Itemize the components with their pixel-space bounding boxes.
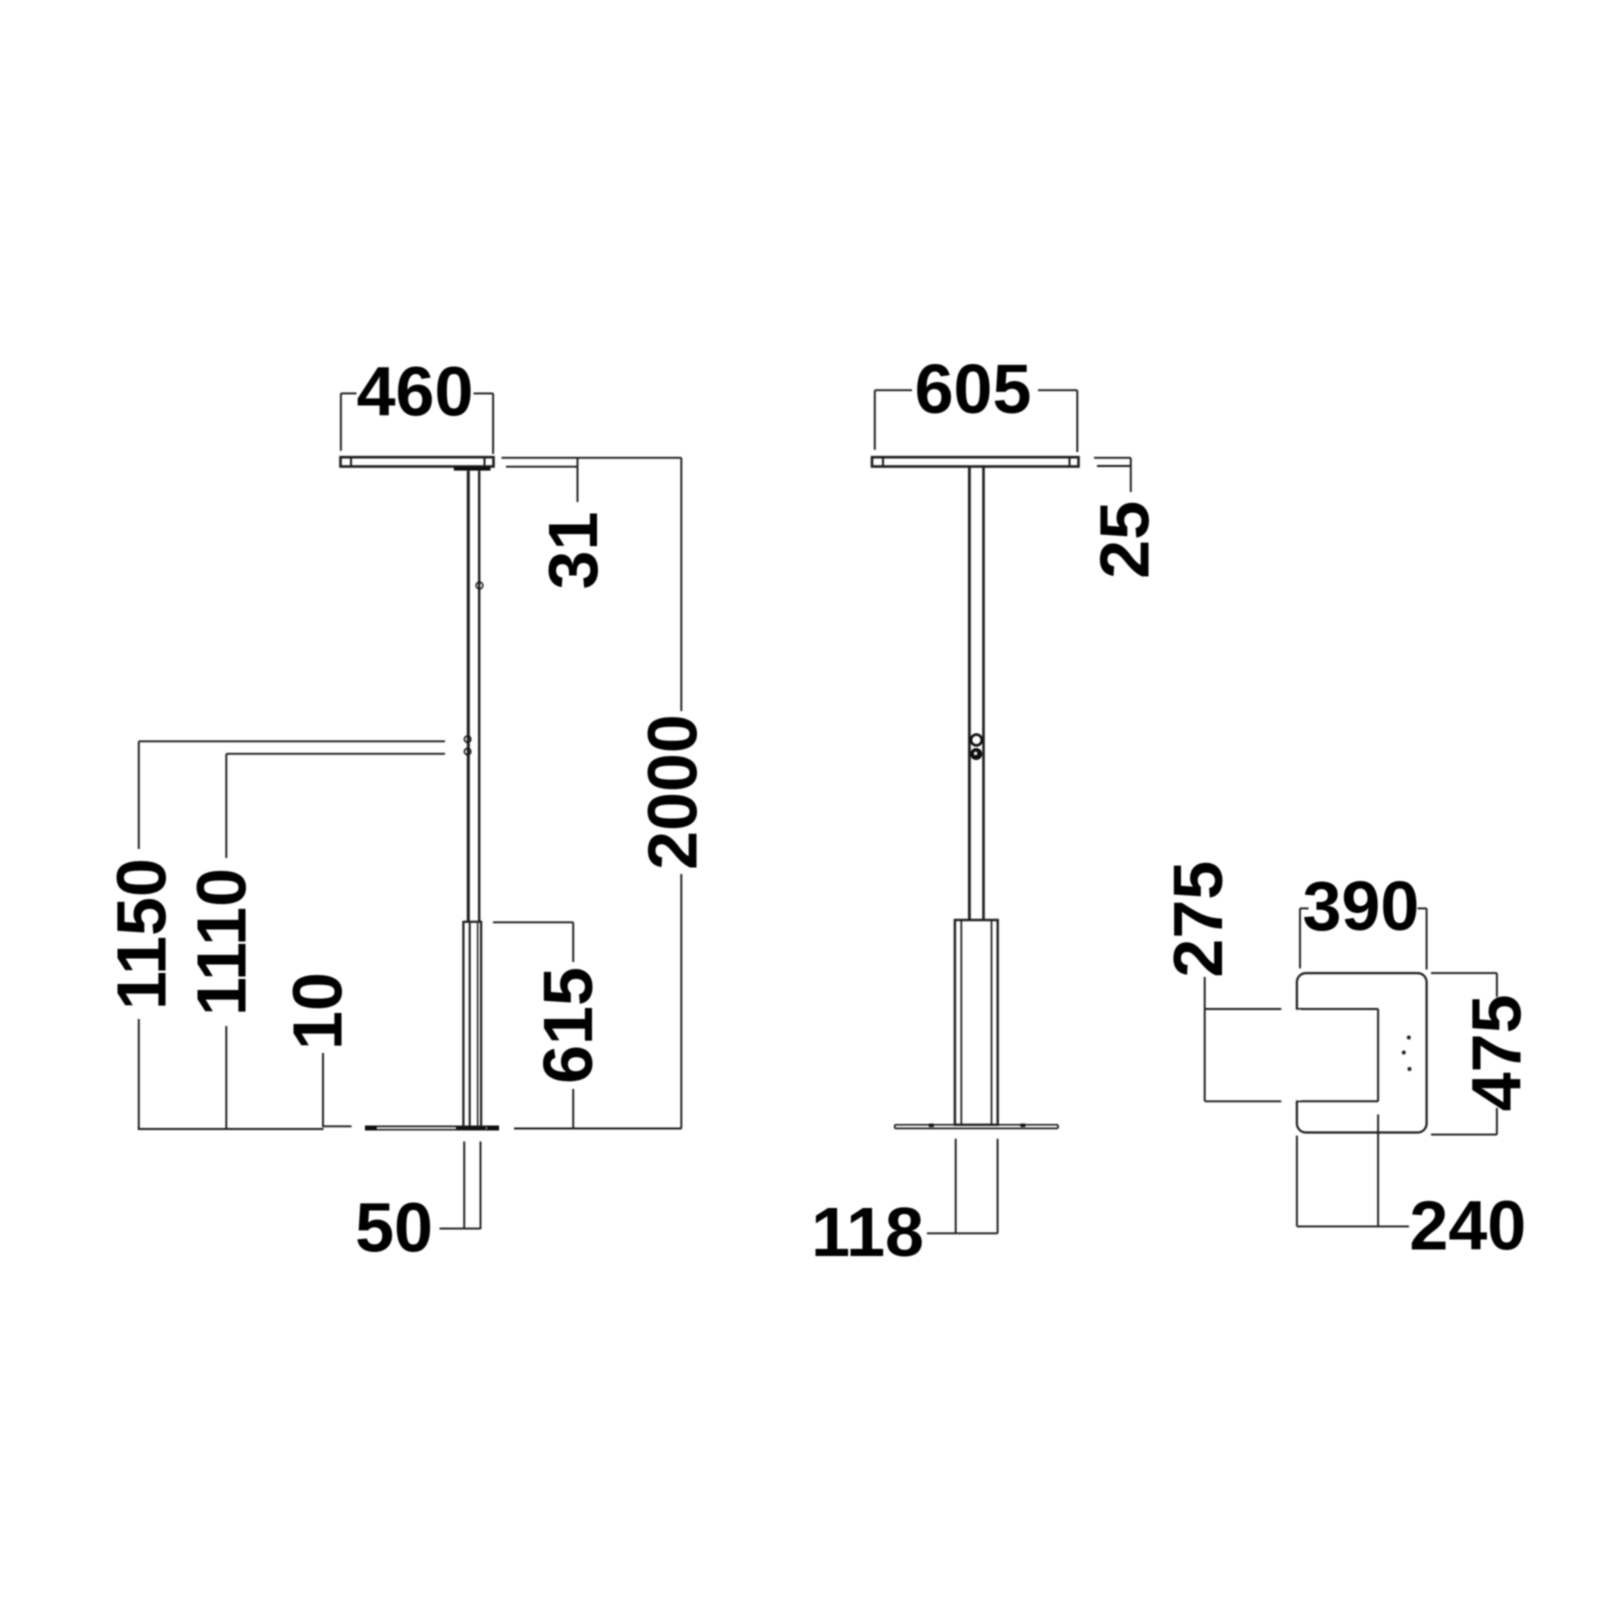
svg-text:390: 390 — [1303, 867, 1420, 945]
svg-text:1110: 1110 — [183, 868, 261, 1016]
lamp head dark bar under plate — [454, 467, 491, 471]
svg-text:275: 275 — [1159, 861, 1237, 978]
dimension 275 (slot depth) — [1205, 977, 1282, 1101]
dimension 118 (lower tube width) — [927, 1139, 998, 1234]
dimension 50 (pole width) — [440, 1142, 481, 1230]
svg-text:460: 460 — [357, 353, 474, 431]
upper shaft pole front view — [468, 471, 479, 922]
svg-text:605: 605 — [915, 350, 1032, 428]
svg-text:25: 25 — [1086, 501, 1164, 579]
top plate (lamp head canopy) front view — [341, 457, 494, 466]
svg-text:50: 50 — [355, 1189, 433, 1267]
svg-text:10: 10 — [279, 972, 357, 1050]
top plate side view — [872, 457, 1079, 466]
dimension 2000 (total height) — [680, 458, 682, 1129]
leader vertical for 10 — [322, 1053, 324, 1127]
svg-text:615: 615 — [529, 967, 607, 1084]
white gap on left edge for open slot — [1294, 1010, 1301, 1100]
dimension 390 (plate width plan) — [1300, 908, 1427, 969]
base plate front view — [365, 1126, 499, 1130]
dimension 605 (top width side) — [875, 390, 1078, 452]
small hole circle on shaft upper — [476, 582, 483, 589]
svg-text:31: 31 — [534, 512, 612, 590]
dimension 1110 (height of lower hole) — [226, 754, 445, 1129]
svg-text:1150: 1150 — [103, 858, 181, 1010]
telescopic lower tube front view — [463, 922, 481, 1127]
dimension 615 (lower tube height) — [493, 922, 573, 1128]
hole circles on side shaft — [971, 735, 982, 746]
dimension 240 (slot width plan) — [1297, 1115, 1409, 1227]
dimension 1150 (height of upper hole) — [139, 741, 445, 1129]
svg-text:475: 475 — [1458, 995, 1536, 1112]
base plate outline rounded rect — [1297, 973, 1427, 1132]
svg-text:240: 240 — [1409, 1187, 1526, 1265]
dimension 31 (plate thickness) — [502, 458, 682, 502]
small screw marks on plate — [1402, 1036, 1412, 1072]
slot cut-out in plate — [1296, 1009, 1378, 1101]
shaft pole side view — [969, 467, 983, 921]
svg-text:2000: 2000 — [634, 714, 712, 870]
svg-text:118: 118 — [811, 1193, 924, 1271]
dimension 475 (plate depth plan) — [1431, 973, 1497, 1135]
bottom datum baseline (floor line) — [138, 1126, 682, 1129]
base plate side view — [895, 1124, 1058, 1129]
dimension 25 (plate thickness side) — [1094, 458, 1131, 492]
dimension 460 (top width front) — [341, 393, 493, 454]
telescopic lower tube side view — [955, 920, 998, 1125]
two small hole circles on shaft middle — [464, 736, 470, 742]
